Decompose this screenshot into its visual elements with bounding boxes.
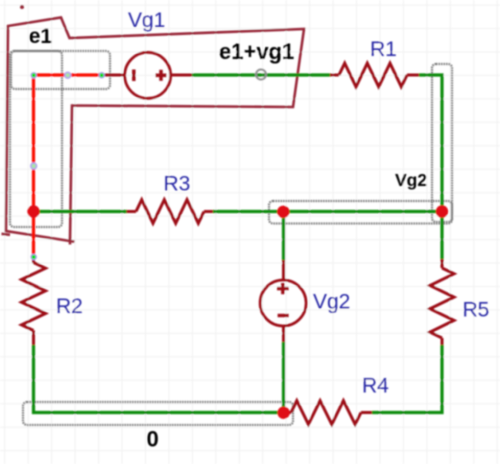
junction node D [277,407,289,419]
highlight box: left vertical selection [10,51,62,227]
wire: middle rail right segment [213,210,442,213]
resistor R5 [430,259,454,345]
resistor R2 [22,258,46,345]
wire: Vg2 branch upper [282,212,285,261]
svg-text:Vg2: Vg2 [313,291,350,314]
wire: red horizontal top-left [34,73,105,76]
annotation outline polygon e1+Vg1 loop [2,18,305,245]
svg-text:R4: R4 [362,375,389,398]
wire: green top right of Vg1 to corner [192,73,330,76]
resistor R1 [330,63,419,87]
node dot green top-left [31,73,36,78]
svg-text:0: 0 [147,427,159,452]
stray dot top-left [20,5,24,9]
wire: bottom rail left [34,345,284,413]
highlight box: right vertical selection [432,64,452,222]
voltage source U Vg2 [260,260,306,342]
resistor R4 [284,401,372,425]
svg-text:R1: R1 [370,38,397,61]
svg-text:e1: e1 [29,25,53,48]
node dot green above R2 [31,254,36,259]
highlight box: bottom rail selection [23,402,293,425]
highlight box: top-left horizontal selection [11,51,110,89]
svg-text:R3: R3 [164,173,191,196]
junction node B [277,206,289,218]
wire: right column above R5 [440,212,443,260]
svg-text:Vg2: Vg2 [395,170,427,190]
node e1+vg1 open circle [256,70,266,80]
svg-text:R2: R2 [56,295,83,318]
resistor R3 [127,200,214,224]
wire: Vg2 branch lower [282,342,285,413]
node dot lavender top [65,72,71,78]
highlight box: middle horizontal selection [269,201,452,224]
wire: green right of R1 turning down right column [419,75,442,212]
node dot lavender left column [31,163,37,169]
voltage source U Vg1 [104,52,192,98]
wire: red vertical left [32,75,35,258]
junction node A [27,205,39,217]
svg-text:R5: R5 [463,299,490,322]
junction node C [436,205,448,217]
svg-text:e1+vg1: e1+vg1 [219,39,294,64]
wire: middle rail left segment [34,210,128,213]
svg-text:Vg1: Vg1 [128,9,165,32]
wire: right column below R5 to bottom corner [372,345,442,413]
node dot green near source [99,73,104,78]
